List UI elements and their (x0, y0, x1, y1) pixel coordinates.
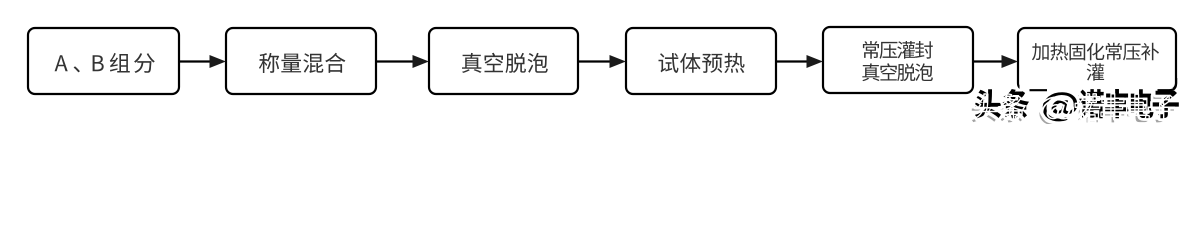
arrow 1: box 1 to box 2 (179, 56, 225, 68)
watermark shadow layer (gray with white halo): 头条@诺丰电子 (971, 94, 1175, 126)
process box 1 (A、B组分) (28, 28, 179, 94)
arrow 5: box 5 to box 6 (973, 56, 1017, 68)
process box 3 (真空脱泡) (429, 28, 578, 94)
process box 5 (常压灌封/真空脱泡) (823, 27, 973, 93)
process box 4 (试体预热) (626, 28, 776, 94)
arrow 3: box 3 to box 4 (578, 56, 625, 68)
watermark shadow outline slicing layer (thin white) (971, 94, 1175, 126)
arrow 2: box 2 to box 3 (376, 56, 428, 68)
arrow 4: box 4 to box 5 (776, 56, 822, 68)
process box 6 (加热固化常压补灌) (1018, 28, 1176, 90)
white halo patch erasing box 6 lower border behind watermark (1047, 85, 1158, 93)
watermark text layer (black with white halo): 头条@诺丰电子 (975, 89, 1179, 121)
process box 2 (称量混合) (226, 28, 376, 94)
box 6 bottom-right corner fragment visible through watermark halo (1158, 78, 1177, 90)
